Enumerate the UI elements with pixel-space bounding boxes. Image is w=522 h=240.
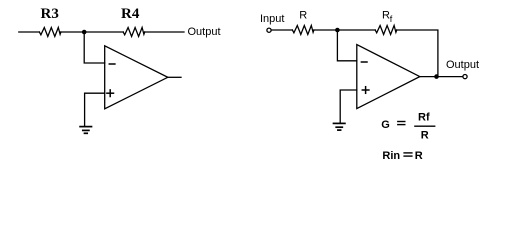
svg-text:G: G — [381, 119, 390, 131]
svg-text:Output: Output — [446, 59, 479, 71]
svg-text:R: R — [421, 130, 429, 142]
svg-text:R3: R3 — [41, 6, 59, 22]
svg-text:R: R — [382, 9, 390, 21]
svg-text:R4: R4 — [121, 6, 140, 22]
svg-text:Rf: Rf — [418, 111, 430, 123]
svg-text:Output: Output — [188, 26, 221, 38]
svg-text:Rin: Rin — [382, 150, 400, 162]
svg-text:Input: Input — [260, 13, 284, 25]
svg-text:R: R — [299, 10, 307, 22]
svg-text:R: R — [415, 150, 423, 162]
